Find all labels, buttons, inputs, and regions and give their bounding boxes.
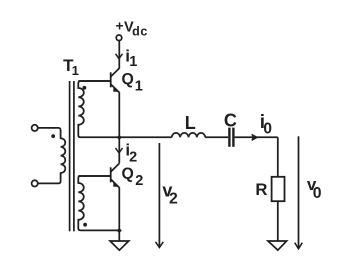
svg-text:1: 1 (135, 78, 143, 94)
svg-text:0: 0 (313, 185, 322, 202)
svg-text:1: 1 (129, 54, 137, 70)
svg-text:L: L (185, 113, 196, 133)
svg-text:C: C (224, 111, 237, 131)
svg-text:0: 0 (263, 120, 272, 137)
svg-text:R: R (255, 180, 267, 199)
svg-text:Q: Q (122, 71, 134, 88)
svg-text:+: + (116, 19, 124, 34)
svg-text:2: 2 (135, 173, 143, 189)
svg-text:1: 1 (72, 63, 79, 78)
svg-text:Q: Q (122, 166, 134, 183)
svg-text:2: 2 (169, 191, 178, 208)
svg-text:2: 2 (129, 149, 137, 165)
svg-text:dc: dc (132, 24, 148, 38)
